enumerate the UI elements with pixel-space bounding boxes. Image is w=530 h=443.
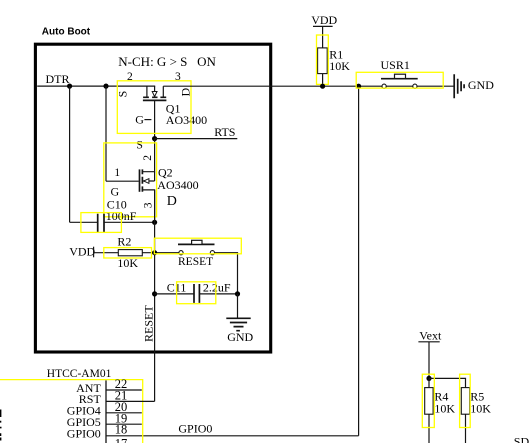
svg-text:G: G [135,112,144,126]
HTCC body right edge [105,380,107,443]
svg-text:AO3400: AO3400 [166,113,207,127]
pin 22 stub [106,389,142,391]
node DTR junction 1 [67,84,72,89]
HTCC selection box lines [0,380,143,443]
Q2 body lead with arrow [143,172,155,181]
node R2 junction [152,250,157,255]
Q1 gate vertical lead [154,101,156,139]
pin number 3 (clipped left) [0,433,1,440]
wire C10 left lead [70,221,98,223]
wire main horizontal (Q1 drain to GND) [163,85,454,87]
Q1 body stub with arrow [154,86,156,91]
RESET actuator bump [192,240,202,244]
RESET terminal circles [179,251,183,255]
GND bars [226,318,250,330]
R4 selection box [422,374,434,427]
node C11 left junction [152,291,157,296]
svg-text:GPIO0: GPIO0 [67,426,101,440]
R2 right lead [142,252,179,254]
svg-text:RESET: RESET [178,256,213,268]
Q1 drain lead [162,86,164,97]
transistor Q1 [115,71,207,138]
svg-text:10K: 10K [434,402,455,416]
R4 bottom lead [428,414,430,443]
wire main vertical (Q2 drain to RST pin) [154,190,156,402]
svg-text:VDD: VDD [311,13,337,27]
svg-text:3: 3 [142,202,154,208]
RESET selection box [154,238,241,254]
C10 right lead [104,221,154,223]
svg-text:17: 17 [115,436,128,443]
R5 bottom lead [465,414,467,443]
wire Q2 gate lead [106,180,139,182]
node USR1 junction [356,84,361,89]
svg-text:Vext: Vext [419,329,442,343]
node C11 right junction [235,291,240,296]
Q1 channel bars [143,96,166,98]
Q2 source lead [143,139,155,172]
resistor R5 [460,374,492,443]
svg-text:USR1: USR1 [381,58,410,72]
wire Vext to R5 [429,378,466,387]
C10 selection box [81,213,122,233]
svg-text:DTR: DTR [46,72,70,86]
R4 body [425,388,433,415]
USR1 actuator bump [395,74,406,78]
svg-text:N-CH: G > S ON: N-CH: G > S ON [118,54,216,69]
pin number 1 (clipped left) [0,410,1,418]
pin 21 wire to RST net [106,400,155,402]
node Vext junction [426,376,431,381]
push button RESET [154,238,241,294]
node DTR junction 2 [103,84,108,89]
svg-text:GPIO0: GPIO0 [178,421,212,435]
svg-text:R2: R2 [117,234,131,248]
svg-text:1: 1 [114,167,120,179]
svg-text:G: G [111,184,120,198]
svg-text:SDA: SDA [514,435,530,443]
svg-text:HTCC-AM01: HTCC-AM01 [47,368,112,380]
Q2 selection box [104,143,157,217]
Q2 channel bars [141,169,143,191]
node C10 junction [152,220,157,225]
R1 selection box [317,35,329,84]
push button USR1 [356,58,443,88]
RESET right lead [215,253,238,294]
Q1 gate plate [143,99,167,101]
svg-text:RTS: RTS [214,125,235,139]
svg-text:10K: 10K [470,402,491,416]
node RTS junction [152,136,157,141]
pin 19 stub [106,423,142,425]
resistor R4 [422,374,455,443]
ground GND (right, rotated) [454,74,494,98]
wire DTR junction1 down to C10 [69,86,71,222]
capacitor C10 [81,197,155,232]
RESET actuator bar [178,243,215,245]
svg-text:D: D [167,194,177,209]
svg-text:10K: 10K [329,59,350,73]
USR1 actuator bar [381,78,418,80]
svg-text:VDD: VDD [69,245,95,259]
USR1 selection box [356,72,443,88]
Q2 drain lead [143,190,155,222]
R2 selection box [104,248,152,258]
transistor Q2 [104,137,199,222]
ground GND (below C11) [226,294,253,344]
C11 right lead [200,293,238,295]
pin 20 stub [106,412,142,414]
resistor R2 [94,234,179,270]
R2 body [118,250,142,256]
IC U1 HTCC-AM01 [0,368,155,443]
USR1 terminal circles [382,84,386,88]
svg-text:S: S [136,137,143,151]
svg-text:2: 2 [142,155,154,161]
wire DTR horizontal [37,85,155,87]
R4 top lead [428,378,430,387]
svg-text:GND: GND [227,330,253,344]
GND bars rotated [454,74,464,98]
svg-text:AO3400: AO3400 [157,178,198,192]
C11 left lead [155,293,194,295]
pin number 2 (clipped left) [0,421,2,429]
capacitor C11 2.2uF [155,280,238,303]
Q1 gate pin dash [144,119,151,121]
wire DTR junction2 down to Q2 gate [105,86,107,181]
wire RTS [155,138,238,140]
C11 plates [194,284,199,303]
Q1 source stub [146,86,148,97]
GND stem [237,294,239,318]
R1 bottom lead [322,74,324,87]
wire USR1 down to GPIO0 [358,86,360,436]
R2 left lead [94,252,119,254]
node R1 junction [320,84,325,89]
Q2 gate plate [139,169,141,191]
svg-text:RESET: RESET [142,305,156,342]
svg-text:18: 18 [115,423,128,437]
R5 selection box [460,374,471,427]
Auto Boot frame box [35,44,270,352]
resistor R1 [317,35,351,86]
C10 plates [98,214,104,232]
svg-text:Auto Boot: Auto Boot [42,27,91,38]
wire GPIO0 (pin 18) [106,435,359,437]
R1 body [318,48,328,74]
svg-text:GND: GND [468,78,494,92]
R5 body [461,388,469,415]
C11 selection box [177,282,216,304]
Q1 selection box [117,81,191,134]
